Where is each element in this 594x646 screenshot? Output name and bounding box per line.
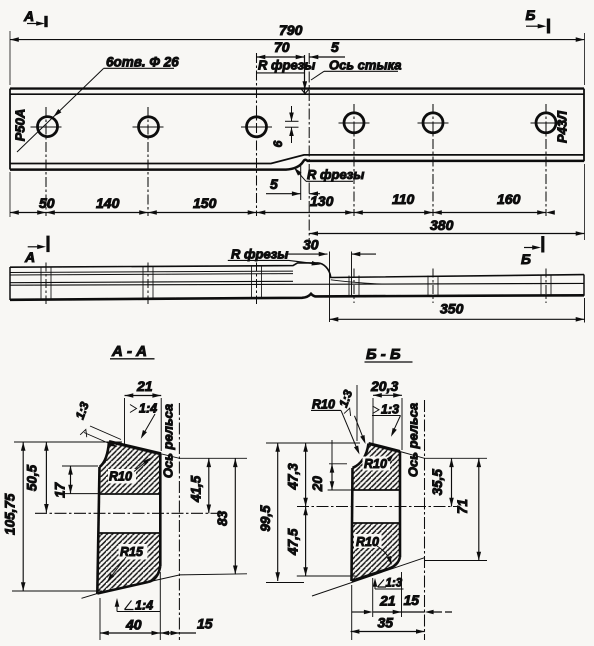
BB dimension 20,3 (top) — [370, 378, 402, 450]
section marker B (view 2 right) — [521, 236, 543, 267]
joint axis centerline (vertical dash-dot) — [308, 53, 310, 243]
bolt hole 1 — [38, 117, 58, 137]
svg-text:Ось рельса: Ось рельса — [161, 404, 176, 478]
top mill notch — [301, 89, 310, 94]
BB profile left edge — [352, 468, 353, 581]
svg-text:380: 380 — [430, 217, 454, 233]
AA dimension 21 (top) — [125, 378, 162, 451]
AA slope label 1:4 (top) with leader — [130, 402, 157, 440]
svg-text:350: 350 — [440, 301, 464, 317]
AA profile left concave curve — [100, 442, 110, 468]
AA dimension 83 — [215, 458, 237, 574]
svg-text:15: 15 — [197, 616, 213, 632]
BB extension bottom 99,5 (y582.5) — [266, 582, 304, 584]
svg-text:А: А — [23, 8, 34, 24]
AA dimension 41,5 — [189, 458, 211, 513]
plate top edge line 1 — [10, 87, 584, 89]
svg-text:83: 83 — [215, 510, 230, 526]
AA dimension 40 — [100, 572, 160, 640]
AA extension line bottom (y591) — [12, 590, 102, 592]
AA inner line upper — [100, 493, 161, 495]
svg-text:5: 5 — [270, 176, 278, 192]
hole centerlines horizontal ticks — [31, 123, 562, 127]
BB extension line top (y443) — [266, 442, 360, 444]
svg-text:40: 40 — [125, 617, 142, 633]
bolt hole 6 — [536, 113, 556, 133]
BB bottom extension lines — [351, 585, 353, 640]
plan taper edge line (mill zone) — [331, 280, 382, 284]
mini dimension 6 (hole row offset) — [271, 106, 299, 147]
svg-text:Ось стыка: Ось стыка — [329, 58, 402, 73]
plan outline: right edge — [583, 275, 585, 296]
section marker A (view 2 left) — [24, 236, 48, 265]
BB dimension 71 — [455, 458, 481, 560]
AA upper hatched flange — [100, 442, 162, 495]
AA dimension 50,5 — [24, 442, 48, 513]
svg-text:35: 35 — [378, 615, 394, 631]
title B-B — [365, 346, 413, 363]
mill zone boundary extension lines (view 2) — [329, 252, 331, 323]
svg-text:Б: Б — [521, 251, 531, 267]
svg-text:50: 50 — [39, 195, 55, 211]
svg-text:47,5: 47,5 — [286, 528, 301, 556]
dimension 70 — [257, 39, 305, 59]
plate top edge line 2 (chamfer) — [10, 93, 584, 95]
BB dimension 35 — [351, 615, 425, 634]
AA profile bottom slope — [97, 582, 148, 594]
svg-text:R10: R10 — [312, 398, 335, 412]
dimension chain 50 140 150 130 110 160 — [10, 191, 555, 215]
AA dimension 105,75 — [3, 442, 26, 591]
BB label R10 upper on white box with leader — [363, 452, 396, 471]
svg-text:35,5: 35,5 — [430, 469, 445, 496]
BB extension hatch bottom (y490) — [328, 489, 352, 491]
BB profile bottom slope — [352, 569, 390, 582]
plate bottom lower line with mill fillet — [10, 160, 584, 170]
svg-text:21: 21 — [136, 378, 153, 394]
BB bottom slope thin extension — [312, 558, 487, 596]
label Os' styka (joint axis) — [311, 58, 402, 81]
plan top edge with mill bump — [10, 263, 584, 278]
AA bottom slope thin extension — [82, 574, 248, 599]
section cut marker A (top left) — [23, 8, 46, 27]
BB slope label 1:3 (rotated, top-left) with leader — [336, 385, 367, 445]
dimension 5 (bottom) — [266, 176, 320, 196]
plan inner line d (full) — [10, 283, 584, 285]
plan inner line a (left) — [10, 271, 293, 272]
bolt hole 4 — [344, 113, 364, 133]
svg-text:1:4: 1:4 — [135, 599, 153, 613]
svg-text:А: А — [24, 249, 35, 265]
BB label R10 lower on white box with leader — [354, 534, 394, 566]
plate right edge — [583, 89, 585, 162]
AA rail axis vertical centerline — [178, 403, 180, 640]
BB dimension 35,5 — [430, 458, 454, 506]
title A-A — [110, 343, 155, 360]
mill line extension (bottom) — [300, 163, 302, 200]
AA slope label 1:3 (rotated) with indicator lines — [73, 400, 121, 449]
svg-text:20,3: 20,3 — [370, 378, 398, 394]
svg-text:R фрезы: R фрезы — [307, 167, 364, 182]
svg-text:R10: R10 — [364, 457, 387, 471]
svg-text:Ось рельса: Ось рельса — [406, 403, 421, 477]
label 6 otv. F26 with leader through hole 1 — [17, 55, 179, 153]
AA dimension 17 — [52, 466, 73, 498]
bolt hole 2 — [139, 117, 159, 137]
AA inner line lower — [100, 532, 161, 534]
svg-text:R15: R15 — [120, 545, 144, 559]
svg-text:130: 130 — [310, 193, 334, 209]
label R frezy (bottom) with leader — [292, 166, 364, 182]
plan inner line b (left) — [10, 274, 293, 275]
BB profile top slant — [369, 444, 401, 452]
BB inner line upper — [353, 489, 401, 491]
mill cut line (top, solid) — [304, 55, 306, 93]
svg-text:R10: R10 — [109, 470, 132, 484]
BB rail axis vertical centerline — [424, 400, 426, 640]
svg-text:99,5: 99,5 — [258, 505, 273, 532]
BB slope label 1:3 (center) with leader — [372, 403, 401, 438]
svg-text:160: 160 — [497, 191, 521, 207]
BB dimension 47,3 — [286, 443, 308, 507]
AA lower hatched flange — [97, 533, 160, 594]
svg-text:105,75: 105,75 — [3, 493, 18, 535]
BB dimension 47,5 — [286, 507, 308, 577]
BB profile bottom-right fillet R10 — [389, 557, 400, 569]
right edge extension (down) — [584, 164, 586, 240]
svg-text:790: 790 — [279, 22, 303, 38]
dimension 790 — [10, 22, 585, 85]
svg-text:47,3: 47,3 — [286, 463, 301, 491]
AA top slant thin extension to axis — [161, 454, 247, 459]
svg-text:Р43Л: Р43Л — [555, 110, 570, 143]
svg-text:R фрезы: R фрезы — [231, 247, 288, 262]
AA label R10 on white box with leader — [108, 456, 152, 484]
AA profile left edge — [97, 467, 99, 594]
AA extension line shoulder (y466) — [62, 465, 98, 467]
svg-text:Б - Б: Б - Б — [366, 346, 401, 363]
svg-text:30: 30 — [303, 237, 319, 253]
svg-text:А - А: А - А — [111, 343, 147, 360]
BB upper hatched flange — [353, 444, 401, 491]
section cut marker B (top right) — [526, 7, 549, 34]
bolt hole 5 — [423, 113, 443, 133]
plan hole edge ticks — [41, 267, 551, 300]
svg-text:Б: Б — [526, 7, 536, 23]
svg-text:15: 15 — [404, 592, 420, 608]
dimension 350 (view 2) — [330, 298, 585, 323]
dimension 5 (top, mill to joint axis) — [310, 39, 346, 59]
svg-text:6отв. Ф 26: 6отв. Ф 26 — [106, 55, 179, 70]
BB dimension 21 / 15 row — [352, 592, 452, 614]
BB dimension 99,5 — [258, 443, 280, 581]
svg-text:1:3: 1:3 — [381, 403, 399, 417]
label R frezy (top mill radius) with leader — [257, 58, 316, 91]
svg-text:150: 150 — [193, 195, 217, 211]
svg-text:5: 5 — [331, 39, 339, 55]
dimension 380 — [309, 217, 584, 236]
BB slope label 1:3 (bottom) — [373, 578, 404, 590]
svg-text:R фрезы: R фрезы — [258, 58, 315, 73]
svg-text:71: 71 — [455, 499, 470, 514]
label R frezy (view 2) with leader — [228, 247, 321, 267]
BB profile left concave curve — [353, 444, 369, 469]
svg-text:140: 140 — [96, 195, 120, 211]
svg-text:1:4: 1:4 — [139, 402, 157, 416]
svg-text:41,5: 41,5 — [189, 475, 204, 503]
AA profile right edge — [159, 454, 162, 566]
svg-text:20: 20 — [310, 476, 325, 493]
plate left edge — [9, 89, 11, 170]
bolt hole 3 — [247, 117, 267, 137]
svg-text:1:3: 1:3 — [386, 578, 403, 590]
BB dimension 20 — [310, 440, 335, 492]
svg-text:110: 110 — [392, 191, 415, 207]
AA extension line top (y442) — [14, 441, 122, 443]
dimension 30 (view 2) — [285, 237, 376, 257]
plan hole centerlines — [46, 263, 546, 305]
AA label R15 on white box with leader — [105, 544, 147, 583]
BB inner line lower — [353, 522, 401, 524]
hole centerlines vertical — [46, 53, 546, 216]
svg-text:R10: R10 — [356, 535, 379, 549]
svg-text:70: 70 — [274, 39, 290, 55]
BB extension bottom 47,5 (y576) — [297, 575, 356, 577]
svg-text:6: 6 — [271, 140, 285, 147]
AA profile bottom-right fillet R15 — [148, 566, 160, 582]
plan outline: left edge — [9, 267, 11, 300]
AA web horizontal centerline — [35, 512, 226, 514]
svg-text:21: 21 — [379, 593, 396, 609]
AA slope label 1:4 (bottom) — [115, 598, 160, 613]
svg-text:Р50А: Р50А — [13, 109, 28, 142]
AA profile top slant — [109, 442, 161, 454]
AA extension line hatch bottom (y493.6) — [62, 493, 99, 495]
plate bottom upper line with milled taper — [10, 155, 584, 164]
BB profile right edge — [399, 452, 402, 558]
BB label R10 top-left with leader — [311, 398, 362, 456]
plan bottom edge with mill hook — [10, 294, 584, 300]
left edge extension (down) — [9, 172, 11, 217]
AA dimension 15 — [160, 616, 212, 636]
BB web horizontal centerline — [297, 506, 458, 508]
svg-text:17: 17 — [52, 481, 67, 498]
BB extension shoulder (y463.8) — [329, 463, 347, 465]
plan inner line c (full) — [10, 281, 293, 282]
BB lower hatched flange — [352, 523, 401, 581]
svg-text:50,5: 50,5 — [24, 464, 39, 491]
BB top slant thin extension to axis — [400, 452, 487, 459]
